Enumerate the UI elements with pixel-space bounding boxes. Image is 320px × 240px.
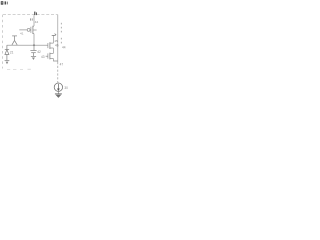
svg-text:41: 41 xyxy=(20,31,24,35)
transistor Q1 (PMOS) xyxy=(19,26,36,34)
dashed box bottom edge xyxy=(7,68,31,70)
figure title text xyxy=(1,1,8,4)
wire below current source xyxy=(57,92,59,94)
ground (current source) xyxy=(55,93,62,95)
diode D1 xyxy=(5,45,9,60)
svg-text:43: 43 xyxy=(41,55,45,59)
svg-text:47: 47 xyxy=(60,63,64,67)
input terminal symbol xyxy=(12,36,17,45)
Q3 source wire xyxy=(53,59,57,62)
dashed box left edge xyxy=(2,15,4,69)
transistor Q1 drain wire xyxy=(33,15,35,26)
svg-text:44: 44 xyxy=(62,45,66,49)
svg-text:45: 45 xyxy=(54,39,58,43)
main horizontal wire xyxy=(7,44,48,46)
ground (capacitor) xyxy=(31,56,36,58)
junction node xyxy=(33,44,35,46)
ground (diode) xyxy=(5,60,10,62)
Q2-Q3 link xyxy=(52,48,54,53)
Q2 drain wire xyxy=(52,36,54,44)
transistor Q1 source wire xyxy=(33,34,35,46)
capacitor C1 xyxy=(30,45,36,56)
svg-text:44: 44 xyxy=(35,20,39,24)
dashed box top edge xyxy=(3,14,58,16)
power terminal VDD1 xyxy=(34,12,37,16)
power terminal VDD2 xyxy=(52,34,57,36)
svg-text:30: 30 xyxy=(64,86,68,90)
svg-text:46: 46 xyxy=(55,44,59,48)
transistor Q3 xyxy=(46,53,54,60)
label 11 xyxy=(30,18,32,20)
svg-text:42: 42 xyxy=(37,50,41,54)
svg-text:21: 21 xyxy=(10,51,14,55)
dashed box right edge / wire xyxy=(57,15,59,62)
transistor Q2 xyxy=(48,42,54,49)
inner dotted line xyxy=(60,23,63,44)
current source I1 xyxy=(54,83,62,91)
